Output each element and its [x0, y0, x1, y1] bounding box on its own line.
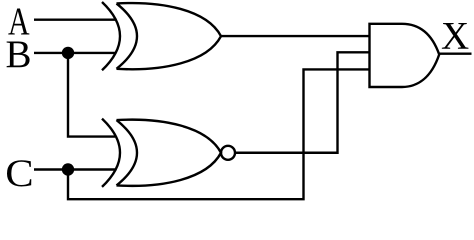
wire B drop to XNOR top input [68, 53, 115, 137]
wire B to XOR bottom input [34, 52, 115, 54]
xor gate U1 (A xor B) [102, 2, 221, 70]
wire C drop, bottom rail, up to AND bottom input [68, 69, 370, 199]
svg-text:B: B [6, 33, 32, 76]
wire XOR output to AND top input [220, 35, 370, 37]
xnor gate U2 (B xnor C) [102, 119, 235, 187]
junction dot on B [62, 47, 74, 59]
svg-text:C: C [5, 152, 33, 195]
inversion bubble on U2 output [221, 146, 235, 160]
wire A to XOR top input [34, 19, 115, 21]
and gate U3 (3-input) [370, 24, 440, 87]
svg-text:X: X [441, 15, 469, 58]
wire XNOR bubble output, up, to AND middle input [236, 52, 370, 152]
wire AND output to X [439, 53, 472, 55]
wire C to XNOR bottom input [34, 168, 115, 170]
junction dot on C [62, 163, 74, 175]
